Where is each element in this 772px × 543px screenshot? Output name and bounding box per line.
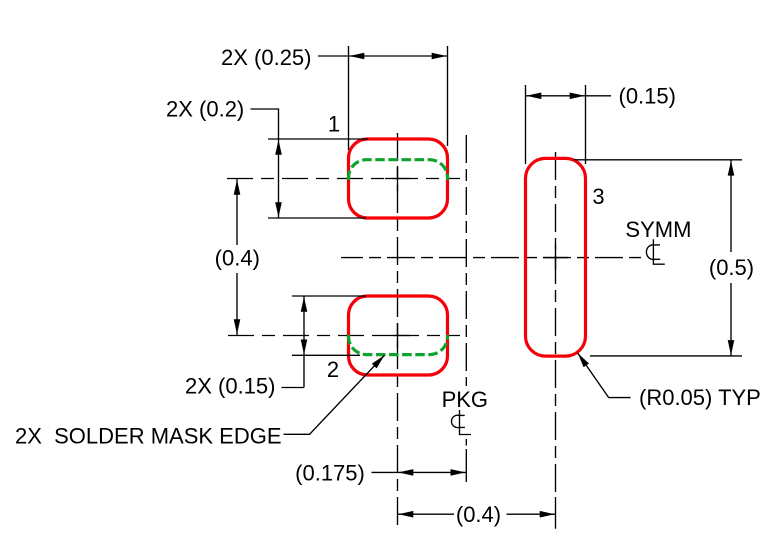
dimension 2X (0.25) line bbox=[318, 55, 448, 57]
arrow 0.15 top right bbox=[570, 93, 585, 100]
center cross pad 3 bbox=[543, 245, 568, 270]
arrow 0.4 left down bbox=[234, 319, 241, 334]
svg-text:2X (0.25): 2X (0.25) bbox=[221, 45, 312, 70]
arrow 0.4 bottom right bbox=[540, 511, 555, 518]
dimension (0.5) line bbox=[730, 160, 732, 356]
dimension (0.175) line bbox=[372, 471, 467, 473]
extension line pad3 right bbox=[585, 85, 587, 164]
arrow 0.5 up bbox=[728, 161, 735, 176]
arrow 0.2 down bbox=[275, 202, 282, 217]
dimension 2X (0.2) line bbox=[278, 139, 280, 218]
arrow 0.4 bottom left bbox=[398, 511, 413, 518]
centerline vertical pad 3 bbox=[555, 152, 557, 495]
leader (R0.05) TYP bbox=[578, 353, 631, 398]
extension line pad3 top (0.5) bbox=[574, 159, 742, 161]
PKG extension line bbox=[465, 439, 467, 482]
dimension (0.4) bottom line bbox=[398, 513, 556, 515]
arrow 0.2 up bbox=[275, 140, 282, 155]
svg-text:(0.175): (0.175) bbox=[295, 461, 365, 486]
extension line pad1 bottom bbox=[268, 217, 366, 219]
PKG centerline symbol bbox=[451, 410, 471, 435]
centerline horizontal pad 1 bbox=[227, 178, 460, 180]
svg-text:2X (0.2): 2X (0.2) bbox=[166, 97, 244, 122]
extension line mask edge bbox=[292, 354, 360, 356]
leader 2X (0.2) bbox=[251, 109, 279, 139]
leader solder mask edge bbox=[284, 355, 385, 434]
arrow 0.15 down bbox=[301, 340, 308, 355]
extension line pad2 top bbox=[292, 295, 366, 297]
svg-text:1: 1 bbox=[328, 112, 340, 137]
solder mask edge pad 2 bbox=[349, 335, 448, 355]
extension line pad width right bbox=[447, 46, 449, 146]
extension line pad width left bbox=[348, 46, 350, 150]
svg-text:(0.4): (0.4) bbox=[215, 246, 260, 271]
extension line pad3 bottom (0.5) bbox=[590, 355, 742, 357]
pad 1 bbox=[349, 139, 448, 218]
arrow 0.25 left bbox=[349, 53, 364, 60]
dimension 2X (0.15) line bbox=[282, 296, 305, 388]
svg-text:2X (0.15): 2X (0.15) bbox=[185, 374, 276, 399]
extension line pad1 top bbox=[268, 138, 368, 140]
arrow 0.175 left bbox=[398, 469, 413, 476]
dimension (0.4) left line bbox=[236, 179, 238, 335]
pad 2 bbox=[349, 296, 448, 375]
svg-text:(0.15): (0.15) bbox=[619, 84, 676, 109]
svg-text:PKG: PKG bbox=[442, 387, 488, 412]
pad 3 bbox=[526, 158, 586, 356]
svg-text:(0.5): (0.5) bbox=[709, 255, 754, 280]
solder mask edge pad 1 bbox=[349, 160, 448, 180]
extension line pad3 left bbox=[525, 85, 527, 164]
center cross pad 2 bbox=[385, 323, 410, 348]
arrow 0.15 up bbox=[301, 297, 308, 312]
centerline horizontal SYMM bbox=[341, 257, 641, 259]
arrow mask leader bbox=[372, 355, 385, 368]
svg-text:(R0.05) TYP: (R0.05) TYP bbox=[639, 385, 761, 410]
arrow 0.175 right bbox=[451, 469, 466, 476]
arrow 0.4 left up bbox=[234, 180, 241, 195]
centerline vertical pads 1-2 bbox=[397, 133, 399, 530]
centerline vertical PKG bbox=[465, 135, 467, 386]
arrow 0.15 top left bbox=[526, 93, 541, 100]
arrow r0.05 leader bbox=[578, 353, 589, 367]
svg-text:3: 3 bbox=[592, 184, 604, 209]
center cross pad 1 bbox=[385, 166, 410, 191]
SYMM centerline symbol bbox=[646, 239, 664, 264]
arrow 0.5 down bbox=[728, 340, 735, 355]
dimension (0.15) line bbox=[526, 95, 612, 97]
svg-text:2X SOLDER MASK EDGE: 2X SOLDER MASK EDGE bbox=[15, 424, 282, 449]
centerline horizontal pad 2 bbox=[228, 335, 460, 337]
svg-text:2: 2 bbox=[327, 357, 339, 382]
arrow 0.25 right bbox=[432, 53, 447, 60]
svg-text:SYMM: SYMM bbox=[625, 217, 691, 242]
svg-text:(0.4): (0.4) bbox=[456, 502, 501, 527]
